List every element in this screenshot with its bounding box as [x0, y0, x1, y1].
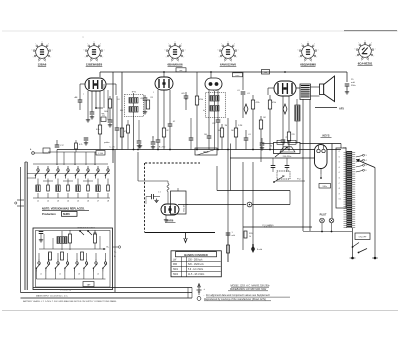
- wire lamp leads: [321, 223, 323, 232]
- wire pu line: [276, 180, 305, 182]
- wire V2 anode: [163, 72, 165, 77]
- wire column b: [121, 72, 123, 150]
- svg-text:mfd: mfd: [351, 82, 355, 84]
- svg-text:7: 7: [301, 44, 302, 46]
- capacitor C22: [285, 165, 290, 167]
- tube base V5 6BQ5: [302, 46, 315, 59]
- svg-text:7: 7: [221, 44, 222, 46]
- node mains terminal B: [374, 257, 377, 260]
- svg-text:VOL 1M: VOL 1M: [183, 204, 185, 212]
- svg-text:R20: R20: [249, 233, 252, 235]
- wire detector feed: [137, 152, 139, 181]
- svg-text:5: 5: [166, 57, 167, 59]
- svg-text:s1: s1: [40, 274, 42, 276]
- svg-text:+: +: [204, 288, 206, 291]
- svg-text:C+: C+: [114, 252, 117, 254]
- wire heater column: [331, 144, 333, 219]
- transformer IFT1: [125, 95, 144, 117]
- lamp P1: [320, 218, 325, 223]
- svg-text:t2: t2: [339, 155, 340, 158]
- label output tap box: [83, 282, 94, 287]
- wire chassis arrow: [184, 233, 187, 243]
- inductor L8 with switch S1h: [107, 169, 109, 171]
- node aerial socket: [32, 152, 35, 155]
- terminal strip tag board: [347, 151, 353, 228]
- svg-text:L1: L1: [37, 201, 40, 203]
- svg-text:L2: L2: [47, 201, 50, 203]
- resistor R1 22k: [101, 117, 106, 122]
- resistor R25: [94, 234, 97, 243]
- svg-text:a.v.c: a.v.c: [235, 75, 239, 77]
- capacitor C12: [216, 119, 221, 121]
- svg-text:-: -: [204, 294, 205, 297]
- wire lead3: [21, 297, 193, 299]
- node speaker taps: [356, 156, 363, 158]
- ground IFT1: [139, 144, 141, 146]
- svg-text:L7: L7: [97, 201, 100, 203]
- svg-text:7: 7: [83, 94, 84, 96]
- svg-text:.01: .01: [247, 93, 251, 95]
- svg-text:BANDS COVERED: BANDS COVERED: [184, 253, 208, 257]
- svg-text:t5: t5: [339, 171, 340, 174]
- resistor R3 2.2k: [98, 125, 101, 134]
- svg-text:1M: 1M: [263, 117, 266, 119]
- svg-text:.01: .01: [237, 90, 240, 92]
- svg-text:L6: L6: [87, 201, 90, 203]
- label mains lead box: [319, 184, 331, 189]
- svg-text:3: 3: [366, 155, 367, 157]
- wire bus drop left: [56, 150, 58, 166]
- svg-text:t10: t10: [339, 198, 341, 201]
- capacitor C19 on bus: [55, 144, 60, 146]
- svg-text:7: 7: [35, 44, 36, 46]
- svg-text:.1: .1: [152, 137, 154, 139]
- svg-text:.005: .005: [181, 93, 185, 95]
- svg-text:4.7k: 4.7k: [79, 144, 82, 146]
- wire pv mains line: [243, 226, 312, 228]
- svg-text:270: 270: [292, 134, 295, 136]
- ground V1 cathode: [87, 118, 89, 120]
- switch S4d contact: [66, 262, 68, 264]
- svg-text:100: 100: [204, 134, 207, 136]
- svg-text:465: 465: [120, 110, 123, 112]
- inductor L4 with switch S1d: [67, 169, 69, 171]
- wire HT bus: [100, 71, 347, 73]
- resistor R6 82: [162, 128, 165, 137]
- capacitor C21: [271, 165, 276, 167]
- resistor R8 1M: [220, 128, 223, 137]
- electrolytic C18: [244, 104, 248, 114]
- label bands covered table: [171, 251, 221, 277]
- wire IFT1 secondary: [133, 117, 135, 150]
- inductor L1 with switch S1a: [37, 169, 39, 171]
- svg-text:100k: 100k: [104, 111, 108, 113]
- capacitor C14 .01: [241, 91, 246, 93]
- tube V4 envelope: [274, 81, 296, 96]
- wire screen bus: [57, 149, 341, 151]
- wire right lead: [374, 168, 376, 258]
- tube V3 envelope: [205, 78, 222, 90]
- svg-text:470k: 470k: [256, 102, 260, 104]
- wire lead ends: [187, 288, 189, 299]
- wire column a: [112, 72, 114, 163]
- svg-text:1M: 1M: [231, 130, 234, 132]
- svg-text:6: 6: [84, 50, 85, 52]
- switch S4b contact: [47, 262, 49, 264]
- svg-text:.05: .05: [185, 99, 189, 101]
- wire field coil tap: [315, 107, 337, 109]
- svg-text:1M: 1M: [225, 125, 228, 127]
- svg-text:t8: t8: [339, 187, 340, 190]
- wire gram link: [113, 246, 119, 248]
- svg-text:6HR6: 6HR6: [167, 219, 174, 223]
- switch S5 contacts: [80, 231, 84, 235]
- wire AVC line: [227, 118, 229, 262]
- capacitor C23 1mfd: [226, 232, 231, 234]
- capacitor C27: [116, 96, 118, 128]
- svg-text:1: 1: [52, 50, 53, 52]
- node mains terminal A: [351, 257, 354, 260]
- svg-text:For alignment data and compone: For alignment data and component values …: [206, 294, 270, 297]
- svg-text:KEYS: KEYS: [322, 134, 329, 138]
- wire chassis dash horizontal: [145, 162, 200, 164]
- svg-text:BATTERY LEADS: L.T. 1.4V H: BATTERY LEADS: L.T. 1.4V H.T. 90V GRID B…: [23, 300, 117, 303]
- resistor R22: [61, 252, 64, 260]
- battery BT1 symbol: [198, 284, 200, 295]
- svg-text:TAP: TAP: [87, 283, 91, 286]
- resistor R2 47k: [120, 128, 123, 137]
- svg-text:6: 6: [32, 50, 33, 52]
- svg-text:6: 6: [165, 50, 166, 52]
- svg-text:SPEAKER SOCKET: SPEAKER SOCKET: [77, 227, 95, 230]
- svg-text:B+: B+: [107, 247, 110, 249]
- svg-text:6: 6: [298, 50, 299, 52]
- switch S4a contact: [38, 262, 40, 264]
- svg-text:1: 1: [185, 50, 186, 52]
- svg-text:t7: t7: [339, 182, 340, 185]
- wire chassis corner to table: [145, 232, 216, 234]
- label mains dropper panel: [274, 143, 301, 154]
- label REC box: [195, 148, 217, 155]
- wire page rules (scan frame): [2, 30, 398, 32]
- svg-text:R5: R5: [151, 97, 153, 99]
- wire IFT1 primary top: [106, 83, 116, 85]
- capacitor C15: [260, 142, 265, 144]
- node junction x253: [252, 244, 254, 246]
- capacitor C1 AE coupling: [78, 99, 83, 101]
- svg-text:t6: t6: [339, 177, 340, 180]
- svg-text:150 - 285 kc/s: 150 - 285 kc/s: [188, 259, 203, 261]
- wire lead1 right hook: [191, 288, 193, 293]
- svg-text:6BQ5/6BM8: 6BQ5/6BM8: [300, 63, 316, 67]
- svg-text:2: 2: [183, 57, 184, 59]
- capacitor C3: [90, 111, 95, 113]
- svg-text:240-250v: 240-250v: [283, 156, 293, 158]
- svg-text:1: 1: [238, 50, 239, 52]
- svg-text:P.U.: P.U.: [297, 179, 301, 181]
- wire V4 anode to OPT: [296, 87, 300, 89]
- svg-text:s2: s2: [59, 274, 61, 276]
- resistor R4 100k: [108, 99, 111, 108]
- resistor R10 470k: [251, 100, 254, 109]
- resistor R9 AVC filter: [234, 128, 237, 137]
- svg-text:6CA4/EZ81: 6CA4/EZ81: [358, 62, 373, 66]
- svg-text:t4: t4: [339, 166, 340, 169]
- svg-text:1: 1: [318, 50, 319, 52]
- svg-text:5.9 - 12.1 Mc/s: 5.9 - 12.1 Mc/s: [188, 269, 204, 271]
- switch S4e contact: [76, 262, 78, 264]
- svg-text:9: 9: [48, 44, 49, 46]
- resistor R7 470k: [195, 96, 198, 105]
- wire bank1 mesh: [27, 173, 110, 175]
- svg-text:s4: s4: [97, 274, 99, 276]
- switch S2 radio-gram: [277, 171, 290, 179]
- wire OPT top to HT: [304, 72, 306, 84]
- svg-text:.02: .02: [173, 121, 176, 123]
- svg-text:A: A: [30, 148, 32, 151]
- wire audio out line: [178, 204, 246, 206]
- inductor L2 with switch S1b: [47, 169, 49, 171]
- label tag board box: [336, 148, 346, 208]
- capacitor C20 detector: [146, 196, 151, 198]
- wire volume line: [114, 150, 116, 293]
- wire pot bottom: [186, 204, 188, 206]
- svg-text:osc: osc: [101, 113, 104, 115]
- svg-text:P.V. MAINS: P.V. MAINS: [262, 224, 274, 227]
- svg-text:R. 250: R. 250: [159, 147, 166, 149]
- inductor L10 choke: [295, 105, 300, 121]
- resistor R24: [49, 252, 52, 260]
- switch S4g contact: [95, 262, 97, 264]
- wire bank feed stubs: [63, 152, 65, 165]
- wire tone line: [217, 190, 290, 192]
- svg-text:za: za: [82, 37, 84, 39]
- svg-text:25: 25: [286, 137, 288, 139]
- svg-text:ON-OFF: ON-OFF: [359, 237, 367, 239]
- svg-text:240v: 240v: [322, 186, 327, 188]
- capacitor C30 25mfd reservoir: [345, 83, 350, 85]
- svg-text:12BA6: 12BA6: [38, 63, 47, 67]
- svg-text:B-: B-: [114, 256, 116, 258]
- svg-text:470k: 470k: [272, 102, 276, 104]
- capacitor C25: [84, 137, 89, 139]
- svg-text:25: 25: [351, 79, 354, 81]
- svg-text:2: 2: [316, 57, 317, 59]
- wire screen drops: [302, 99, 304, 231]
- node V1 grid: [95, 107, 97, 109]
- svg-text:7: 7: [358, 43, 359, 45]
- wire bank2 bottom bus: [36, 278, 105, 280]
- svg-text:MAINS INPUT 110-250V A.C.: MAINS INPUT 110-250V A.C. D.C.: [36, 294, 68, 297]
- svg-text:1: 1: [104, 50, 105, 52]
- tube V2 envelope: [155, 77, 173, 90]
- svg-text:6: 6: [218, 50, 219, 52]
- potentiometer VR1 volume: [171, 191, 187, 214]
- resistor R21: [69, 234, 72, 243]
- svg-text:350v: 350v: [351, 85, 357, 87]
- wire V2 leads: [157, 90, 159, 140]
- svg-text:5: 5: [356, 56, 357, 58]
- resistor R20 1k: [244, 231, 247, 238]
- wire osc coil link: [96, 107, 103, 109]
- wire switch rail S1: [24, 162, 26, 290]
- svg-text:11.5 - 18.1 Mc/s: 11.5 - 18.1 Mc/s: [188, 274, 205, 276]
- svg-text:1: 1: [232, 232, 234, 234]
- wire pu riser: [289, 191, 291, 205]
- wire bank2 top bus: [39, 248, 106, 250]
- inductor L6 with switch S1f: [87, 169, 89, 171]
- wire col x253: [252, 162, 254, 250]
- wire extra v a: [103, 84, 105, 108]
- svg-text:6.8k: 6.8k: [96, 129, 100, 131]
- svg-text:82: 82: [167, 130, 169, 132]
- svg-text:C.100: C.100: [98, 153, 103, 155]
- svg-text:WAVEBANDS: LW MW SW1 SW2: WAVEBANDS: LW MW SW1 SW2: [230, 288, 267, 291]
- resistor R5: [146, 100, 149, 109]
- capacitor C9 coupling: [184, 95, 189, 97]
- svg-text:.05: .05: [140, 98, 143, 100]
- capacitor C16 cathode: [281, 139, 286, 141]
- svg-text:Reproduced by courtesy of the: Reproduced by courtesy of the manufactur…: [204, 298, 266, 301]
- svg-text:C17: C17: [60, 145, 65, 147]
- tube V1 envelope: [85, 78, 106, 91]
- svg-text:C 1: C 1: [158, 192, 161, 194]
- inductor L7 with switch S1g: [97, 169, 99, 171]
- tube base V4 6AV6: [222, 46, 235, 59]
- wire aerial link: [48, 151, 96, 153]
- capacitor C26: [190, 118, 192, 138]
- tube base V2 12BE6: [88, 46, 101, 59]
- svg-text:L5: L5: [77, 201, 80, 203]
- lamp P2: [329, 218, 334, 223]
- label box B: [233, 73, 243, 77]
- wire V5 cathode: [165, 215, 167, 218]
- svg-text:25: 25: [270, 146, 273, 148]
- svg-text:6AV6/12AV6: 6AV6/12AV6: [220, 63, 236, 67]
- svg-text:2: 2: [373, 56, 374, 58]
- wire V3 leads: [208, 90, 210, 136]
- resistor R26: [127, 120, 129, 125]
- transformer OPT output: [300, 84, 311, 100]
- svg-text:6HR6: 6HR6: [63, 212, 70, 216]
- wire HT feed right: [310, 71, 347, 73]
- wire link top: [262, 143, 274, 145]
- svg-text:7: 7: [168, 44, 169, 46]
- svg-text:2: 2: [102, 57, 103, 59]
- resistor R13 cathode: [287, 132, 290, 141]
- svg-text:5: 5: [219, 57, 220, 59]
- wire V1 left drop: [80, 83, 85, 85]
- speaker LS1: [320, 84, 324, 95]
- tube V6 envelope: [315, 145, 328, 169]
- svg-text:1k: 1k: [249, 236, 251, 238]
- capacitor C11: [207, 135, 212, 137]
- svg-text:PILOT: PILOT: [320, 215, 327, 217]
- svg-text:50k: 50k: [218, 130, 221, 132]
- svg-text:9: 9: [181, 44, 182, 46]
- capacitor C5 trimmer: [143, 97, 148, 99]
- label box A: [176, 68, 186, 72]
- svg-text:9: 9: [234, 44, 235, 46]
- svg-text:6: 6: [366, 170, 367, 172]
- wire tagboard feed: [340, 144, 342, 149]
- switch unit S4 enclosure: [33, 228, 113, 290]
- tube base V3 6BA6: [169, 46, 182, 59]
- svg-text:padder: padder: [104, 142, 110, 144]
- resistor R11: [259, 120, 262, 129]
- capacitor C13 AVC: [244, 137, 249, 139]
- wire dial cord pointer: [356, 160, 375, 168]
- resistor R27: [75, 140, 77, 143]
- svg-text:470k: 470k: [199, 99, 203, 101]
- svg-text:5: 5: [33, 57, 34, 59]
- svg-text:4: 4: [366, 160, 367, 162]
- svg-text:5: 5: [366, 165, 367, 167]
- svg-text:osc: osc: [179, 70, 182, 72]
- wire HT drop to reservoir: [346, 72, 348, 82]
- wire extra v b: [107, 90, 109, 120]
- wire lead2: [21, 292, 193, 294]
- svg-text:t3: t3: [339, 161, 340, 164]
- capacitor C7: [156, 139, 161, 141]
- capacitor C8: [168, 123, 173, 125]
- jack J1 pickup: [247, 202, 252, 207]
- wire V4 cathode leads: [282, 96, 284, 140]
- svg-text:C. 25: C. 25: [109, 147, 115, 149]
- svg-text:MODEL 1253. A.C. MAINS 200-250: MODEL 1253. A.C. MAINS 200-250v: [230, 284, 270, 287]
- svg-text:s3: s3: [78, 274, 80, 276]
- svg-text:6BA6/6AU6: 6BA6/6AU6: [167, 63, 183, 67]
- electrolytic C17: [283, 104, 287, 114]
- svg-text:.01: .01: [248, 134, 251, 136]
- svg-text:2.2M: 2.2M: [238, 125, 243, 127]
- svg-text:C4: C4: [117, 99, 119, 101]
- wire chassis dash vertical: [144, 163, 146, 232]
- svg-text:t1: t1: [339, 150, 340, 153]
- capacitor C28: [138, 120, 140, 141]
- svg-text:6: 6: [355, 49, 356, 51]
- svg-text:1: 1: [153, 92, 154, 94]
- svg-text:9: 9: [314, 44, 315, 46]
- switch S4h contact: [104, 262, 106, 264]
- switch S4f contact: [85, 262, 87, 264]
- wire bank1 top links: [33, 163, 108, 165]
- node bus dots 2: [157, 149, 159, 151]
- svg-text:8 mfd: 8 mfd: [257, 249, 262, 251]
- wire V5 grid stub: [145, 197, 147, 205]
- svg-text:7: 7: [87, 44, 88, 46]
- svg-text:mfd: mfd: [232, 235, 235, 237]
- tube base V1 12BA6: [36, 46, 49, 59]
- capacitor C24: [39, 231, 44, 233]
- node aerial terminals: [17, 199, 24, 201]
- svg-text:DIAL: DIAL: [343, 147, 347, 150]
- wire IFT2 secondary drop: [214, 118, 216, 150]
- svg-text:t9: t9: [339, 192, 340, 195]
- wire OPT to speaker: [311, 86, 320, 88]
- resistor R23: [81, 252, 84, 260]
- wire V1 anode: [99, 72, 101, 77]
- wire V4 grid: [268, 87, 274, 89]
- wire lead1: [33, 287, 192, 289]
- wire rectifier output: [320, 174, 322, 178]
- svg-text:NOTE: VERSION WAS REPLACED.: NOTE: VERSION WAS REPLACED.: [42, 207, 85, 211]
- svg-text:5: 5: [299, 57, 300, 59]
- wire col x243: [242, 162, 244, 250]
- switch S4c contact: [57, 262, 59, 264]
- inductor L11 grid coil: [167, 181, 169, 184]
- svg-text:SW2: SW2: [173, 274, 179, 276]
